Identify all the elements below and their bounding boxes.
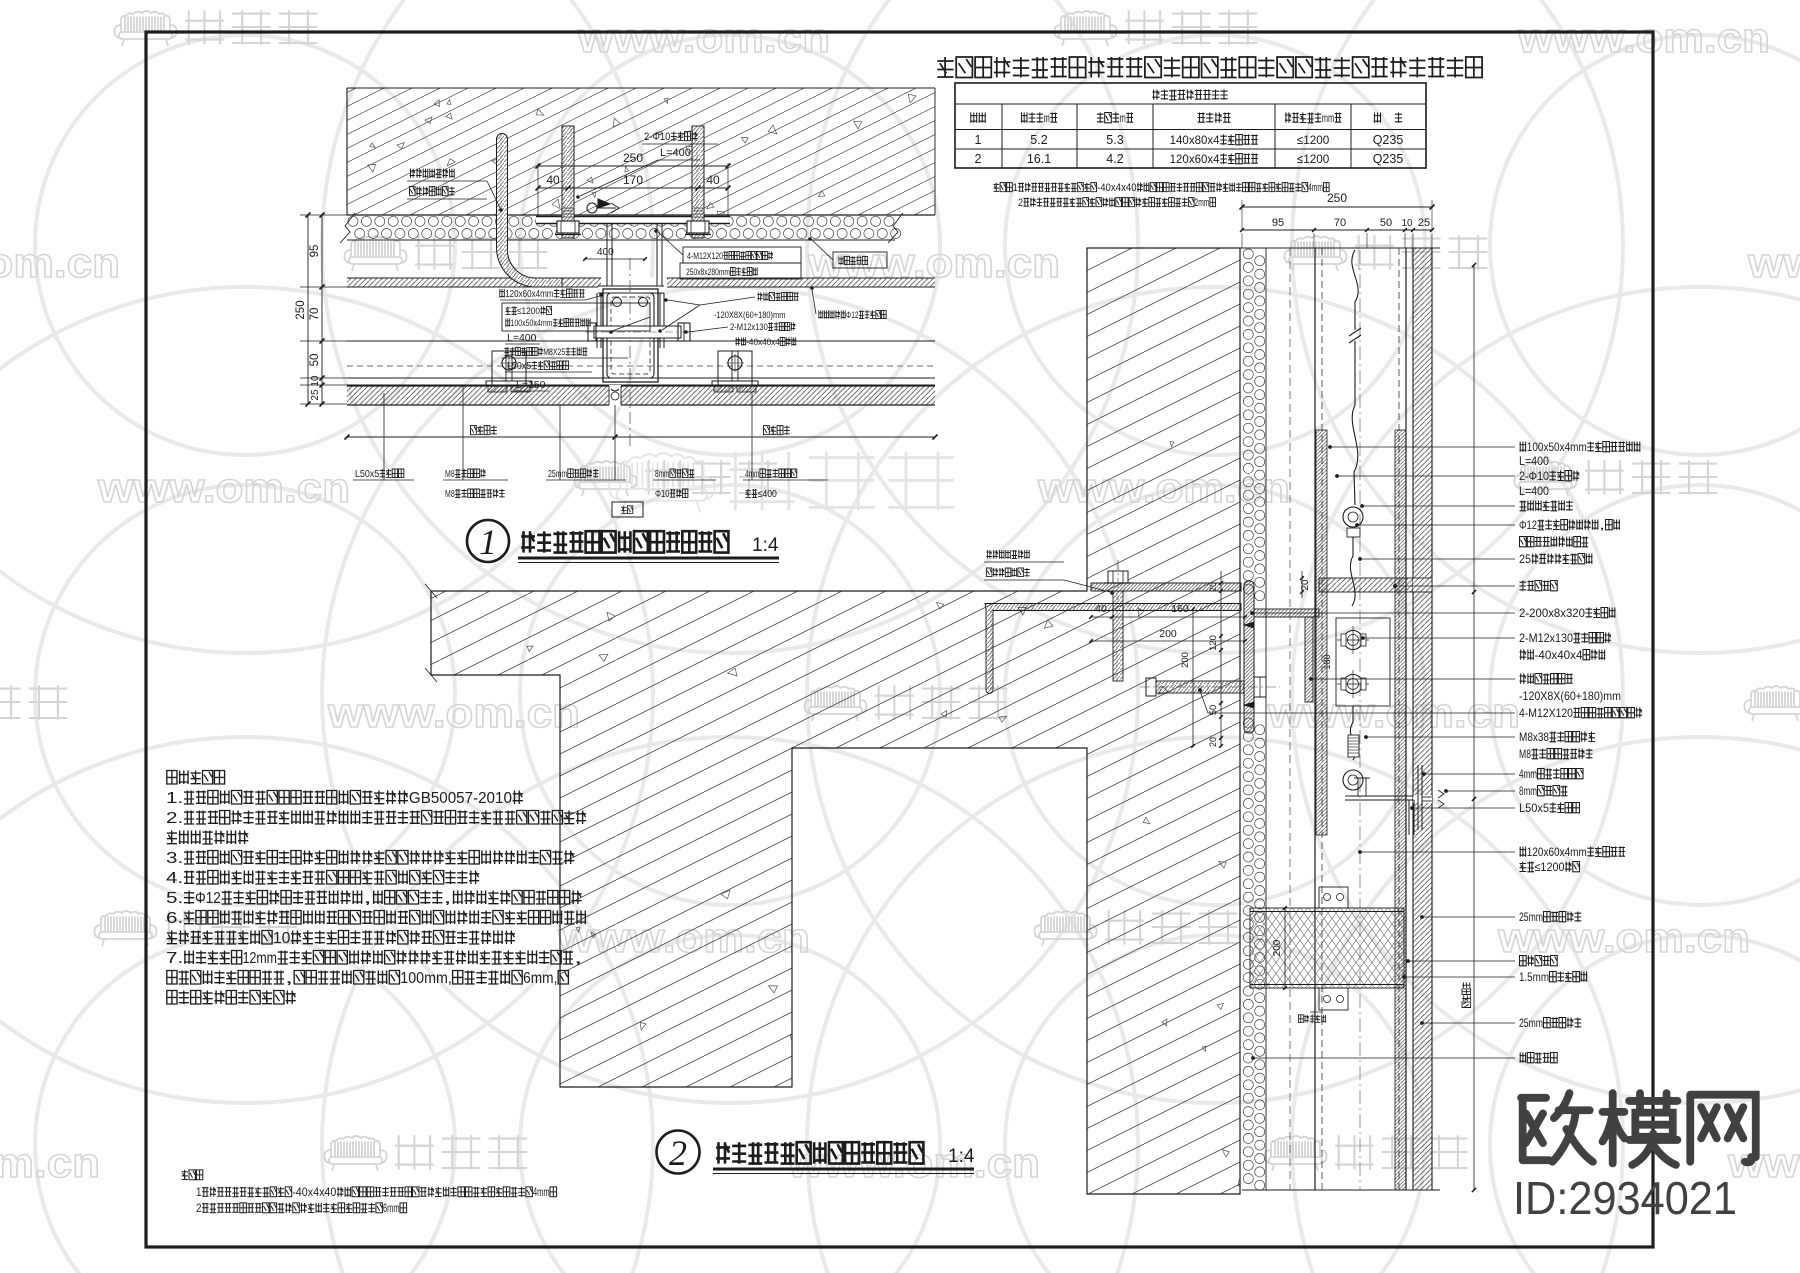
detail 1 label lightning ring phi12: [818, 310, 886, 321]
svg-text:-40x4x40: -40x4x40: [292, 1187, 336, 1199]
watermark tiled logos: [1054, 11, 1116, 46]
svg-text:120x60x4: 120x60x4: [1170, 152, 1220, 166]
detail 2 label wire terminal: [1520, 501, 1573, 511]
svg-text:4.: 4.: [166, 870, 183, 887]
detail 1 stone joint 8mm with foam rod: [609, 385, 621, 406]
detail 2 rod connection box with bolts: [1336, 618, 1390, 706]
svg-text:250: 250: [295, 300, 307, 319]
detail 2 label shim 40x40x4: [1520, 648, 1606, 662]
svg-text:,: ,: [443, 890, 452, 907]
detail 1 label civil insulation boxed: [833, 252, 887, 268]
svg-text:25mm: 25mm: [1519, 1016, 1543, 1030]
svg-text:L=400: L=400: [660, 147, 691, 159]
detail 2 tube inner dashed lines: [1321, 248, 1323, 1190]
svg-text:16.1: 16.1: [1027, 152, 1051, 166]
svg-text:www.om.cn: www.om.cn: [1517, 14, 1770, 61]
svg-text:100x50x4mm: 100x50x4mm: [511, 318, 553, 329]
detail 2 label 4-M12x120 anchor: [1519, 706, 1642, 720]
svg-text:20: 20: [1208, 582, 1218, 592]
detail 2 firestop rock wool band: [1250, 908, 1404, 988]
detail 1 section marker: [598, 199, 610, 208]
detail 1 label stone 25mm: [548, 469, 598, 480]
svg-text:4mm: 4mm: [533, 1187, 550, 1199]
detail 2 label L=400: [1519, 454, 1549, 468]
detail 2 firestop dimension 200: [1284, 908, 1286, 988]
detail 2 module dimension line vertical: [1473, 265, 1475, 1190]
svg-text:10: 10: [310, 375, 321, 387]
detail 1 label stainless hanger 4mm: [745, 469, 797, 480]
svg-text:-40x40x4: -40x40x4: [1535, 648, 1583, 662]
svg-text:2-M12x130: 2-M12x130: [1519, 631, 1573, 645]
svg-text:250x8x280mm: 250x8x280mm: [686, 267, 730, 278]
svg-text:12mm: 12mm: [243, 950, 277, 967]
svg-text:400: 400: [597, 247, 614, 258]
detail 2 label seven connector: [1520, 674, 1573, 684]
detail 1 tube top screws: [613, 298, 622, 307]
detail 2 bottom edge line: [1242, 1189, 1440, 1191]
detail 2 horizontal chemical anchor bolt: [1156, 681, 1244, 693]
svg-text:25: 25: [310, 389, 321, 401]
detail 2 slab top embed plate: [1091, 583, 1241, 591]
detail 1 hat channel gussets: [601, 278, 667, 288]
detail 2 firestop sheet label: [1298, 1015, 1326, 1023]
site watermark logo text: [1521, 1093, 1593, 1162]
svg-text:20: 20: [1208, 737, 1218, 747]
detail 2 label stone lower: [1519, 1016, 1581, 1030]
svg-text:L50x5: L50x5: [1519, 801, 1549, 815]
detail 1 transom lines: [347, 340, 935, 342]
detail 1 insulation layer (circles): [348, 216, 901, 238]
svg-text:2-200x8x320: 2-200x8x320: [1519, 606, 1585, 620]
svg-text:5.: 5.: [166, 890, 183, 907]
detail 1 stone clamp bracket left: [492, 351, 526, 386]
detail 2 label L=400 b: [1519, 484, 1549, 498]
detail 2 equipotential rod assembly: [1349, 250, 1361, 505]
svg-text:120: 120: [1208, 635, 1219, 651]
detail 2 wall embed plate 2-200x8x320: [1244, 581, 1254, 733]
svg-text:2-Φ10: 2-Φ10: [1519, 469, 1549, 483]
svg-text:250: 250: [623, 151, 643, 165]
drawing sheet border frame: [146, 32, 1653, 1247]
svg-text:200: 200: [1159, 628, 1177, 640]
svg-text:mm: mm: [1322, 111, 1335, 125]
detail 2 label M12x130 bolts: [1519, 631, 1611, 645]
svg-text:1.5mm: 1.5mm: [1519, 970, 1549, 984]
svg-text:-120X8X(60+180)mm: -120X8X(60+180)mm: [714, 310, 785, 321]
detail 2 vertical anchor bolt into slab: [1113, 591, 1123, 681]
svg-text:1:4: 1:4: [948, 1146, 975, 1167]
detail 1 sealant/steel strip: [347, 278, 935, 287]
svg-text:1:4: 1:4: [752, 535, 779, 556]
detail 2 label M8x38 bolt set: [1519, 730, 1595, 744]
svg-text:1: 1: [479, 522, 497, 562]
svg-text:GB50057-2010: GB50057-2010: [409, 790, 512, 807]
detail 2 lightning strap on slab: [985, 604, 1241, 694]
svg-text:≤1200: ≤1200: [1297, 133, 1330, 147]
svg-text:M8x38: M8x38: [1519, 730, 1549, 744]
svg-text:1: 1: [1013, 182, 1018, 194]
svg-text:≤1200: ≤1200: [1297, 152, 1330, 166]
detail 1 label M8 bolts: [445, 469, 486, 480]
svg-text:4mm: 4mm: [1519, 767, 1537, 781]
svg-text:4-M12X120: 4-M12X120: [1519, 706, 1573, 720]
detail 2 wall insulation strip (circles): [1243, 249, 1264, 1190]
svg-text:www.om.cn: www.om.cn: [1747, 239, 1800, 286]
detail 2 label 8mm joint: [1519, 784, 1568, 798]
svg-text:2.: 2.: [166, 810, 183, 827]
lightning protection notes: [167, 771, 225, 785]
svg-text:,: ,: [285, 970, 294, 987]
detail 1 label 250x8x280 plate boxed: [680, 263, 801, 279]
svg-text:Q235: Q235: [1373, 152, 1404, 166]
detail 1 label 8mm sealant joint: [655, 469, 694, 480]
svg-text:180: 180: [1322, 654, 1332, 669]
svg-text:m: m: [1120, 111, 1126, 125]
svg-text:www.om.cn: www.om.cn: [97, 464, 350, 511]
detail 2 label mullion tube 120x60: [1520, 845, 1626, 859]
svg-text:5.2: 5.2: [1030, 133, 1047, 147]
svg-text:2: 2: [1018, 197, 1023, 209]
svg-text:100mm,: 100mm,: [400, 970, 452, 987]
detail 2 insert tube core (hatched strips): [1316, 430, 1327, 835]
svg-text:250: 250: [1327, 191, 1347, 205]
svg-text:8mm: 8mm: [655, 469, 670, 480]
svg-text:2-M12x130: 2-M12x130: [730, 322, 768, 333]
detail 2 stone joint sealant 20mm at slab level: [1413, 578, 1432, 592]
svg-text:95: 95: [1272, 217, 1284, 229]
svg-text:2: 2: [975, 152, 982, 166]
svg-text:6mm,: 6mm,: [523, 970, 557, 987]
svg-text:50: 50: [1208, 705, 1219, 716]
detail 2 label fire sealant: [1520, 956, 1558, 966]
svg-text:www.om.cn: www.om.cn: [0, 1139, 100, 1186]
detail 2 firestop support bracket top: [1319, 887, 1348, 908]
detail 2 label hanger 4mm: [1519, 767, 1583, 781]
detail 1 stone clamp bracket right: [718, 351, 752, 386]
detail 1 label main lightning conductor: [410, 169, 455, 178]
detail 1 label shim 40x40x4: [735, 337, 796, 348]
svg-text:2-Φ10: 2-Φ10: [644, 131, 670, 143]
detail 1 angle cleats: [596, 293, 598, 348]
svg-text:ID:2934021: ID:2934021: [1513, 1172, 1737, 1224]
svg-text:6mm: 6mm: [383, 1203, 400, 1215]
svg-text:100x50x4mm: 100x50x4mm: [1527, 440, 1587, 454]
detail 1 anchor bolt left 2-phi10: [562, 126, 574, 238]
detail 2 tube centerline: [1359, 250, 1361, 1190]
detail 2 label weather sealant: [1520, 581, 1558, 591]
svg-text:Φ12: Φ12: [1519, 518, 1537, 532]
svg-text:4.2: 4.2: [1106, 152, 1123, 166]
installation notes: [182, 1170, 203, 1180]
detail 1 label 2-phi10 rebar L=400: [644, 131, 697, 143]
detail 2 seven-shape connector bracket: [1254, 609, 1319, 617]
detail 2 steel mullion tube faces: [1314, 248, 1316, 1190]
svg-text:M8: M8: [1519, 747, 1531, 761]
svg-text:40: 40: [706, 173, 720, 187]
detail 1 label -120x8 plate: [714, 310, 785, 321]
svg-text:95: 95: [309, 245, 321, 258]
svg-text:www.om.cn: www.om.cn: [577, 14, 830, 61]
detail 2 label core tube 100x50: [1520, 440, 1641, 454]
svg-text:8mm: 8mm: [1519, 784, 1537, 798]
detail 2 title circle: [657, 1131, 700, 1174]
svg-text:3.: 3.: [166, 850, 183, 867]
detail 2 label stone upper: [1519, 910, 1581, 924]
svg-text:70: 70: [309, 308, 321, 321]
svg-text:1.: 1.: [166, 790, 183, 807]
svg-text:5.3: 5.3: [1106, 133, 1123, 147]
detail 1 dimension 40/170/40: [538, 187, 728, 189]
svg-text:2: 2: [669, 1133, 687, 1173]
svg-text:200: 200: [1272, 939, 1283, 956]
svg-text:www.om.cn: www.om.cn: [0, 239, 120, 286]
svg-text:Φ10: Φ10: [655, 489, 670, 500]
svg-text:50: 50: [1380, 217, 1392, 229]
detail 1 outdoor box label: [612, 502, 643, 517]
detail 2 slab edge break marks: [425, 584, 437, 598]
svg-text:L=400: L=400: [507, 332, 537, 344]
svg-text:≤1200: ≤1200: [517, 306, 540, 317]
detail 1 left label stack: [499, 289, 584, 300]
svg-text:M8: M8: [445, 469, 455, 480]
svg-text:120x60x4mm: 120x60x4mm: [505, 289, 553, 300]
detail 1 module dimension line: [347, 436, 935, 438]
detail 2 label L50x5 angle: [1519, 801, 1580, 815]
detail 2 label 1.5mm sheet: [1519, 970, 1587, 984]
detail 2 label -120x8: [1519, 689, 1621, 703]
detail 1 embedded steel plate 250x8x280: [536, 216, 730, 224]
svg-text:-40x4x40: -40x4x40: [1097, 182, 1137, 194]
svg-text:www.om.cn: www.om.cn: [1727, 1139, 1800, 1186]
general note heading: [937, 57, 1482, 78]
detail 2 weld mark bottom: [1244, 702, 1254, 708]
detail 1 title text: [521, 531, 728, 552]
watermark big logo behind title 1: [609, 453, 715, 512]
detail 2 anchor dimensions: [1091, 616, 1245, 618]
svg-text:140x80x4: 140x80x4: [1170, 133, 1220, 147]
svg-text:-120X8X(60+180)mm: -120X8X(60+180)mm: [1519, 689, 1621, 703]
svg-text:40: 40: [546, 173, 560, 187]
detail 2 label ring weld: [1520, 537, 1589, 547]
svg-text:≤400: ≤400: [758, 489, 778, 500]
detail 2 rod lower turnbuckle and eye: [1350, 706, 1355, 760]
svg-text:M8: M8: [445, 489, 455, 500]
detail 1 top dimension 250: [538, 165, 728, 167]
detail 2 title text: [716, 1142, 923, 1163]
detail 2 weld mark top: [1244, 622, 1254, 628]
svg-text:1: 1: [196, 1187, 202, 1199]
detail 1 bottom leader lines: [383, 393, 385, 480]
svg-text:10: 10: [1401, 218, 1413, 229]
svg-text:≤1200: ≤1200: [1535, 860, 1565, 874]
detail 1 label seven connector: [757, 292, 798, 300]
detail 2 stone hanger assembly at joint: [1413, 795, 1432, 803]
table footnotes: [994, 182, 1330, 194]
svg-text:,: ,: [363, 890, 372, 907]
svg-text:Q235: Q235: [1373, 133, 1404, 147]
svg-text:Φ12: Φ12: [195, 890, 221, 907]
detail 2 label copper cable 25sq: [1519, 552, 1593, 566]
table column headers: [970, 113, 986, 123]
svg-text:2mm: 2mm: [1195, 197, 1210, 209]
detail 2 label M8 nut washer: [1519, 747, 1593, 761]
detail 1 label 4-M12x120 anchor boxed: [683, 247, 801, 263]
detail 2 label embed plate 200x8x320: [1519, 606, 1616, 620]
detail 2 hidden line at anchor plane: [1289, 248, 1291, 1190]
svg-text:40: 40: [1095, 603, 1107, 615]
svg-text:,: ,: [1599, 518, 1605, 532]
svg-text:4-M12X120: 4-M12X120: [687, 251, 723, 262]
svg-text:160: 160: [1171, 603, 1189, 615]
svg-text:m: m: [1044, 111, 1050, 125]
svg-text:2: 2: [196, 1203, 202, 1215]
svg-text:,: ,: [574, 950, 583, 967]
svg-text:70: 70: [1334, 217, 1346, 229]
svg-text:120x60x4mm: 120x60x4mm: [1527, 845, 1587, 859]
detail 2 strap label: [986, 550, 1029, 559]
detail 1 title circle: [467, 520, 509, 562]
svg-text:L=400: L=400: [1519, 454, 1549, 468]
svg-text:4mm: 4mm: [745, 469, 760, 480]
detail 1 left dimension chain 250/95/70/50/10/25: [307, 215, 309, 404]
svg-text:25: 25: [1519, 552, 1531, 566]
svg-text:-40x40x4: -40x40x4: [746, 337, 780, 348]
svg-text:1: 1: [975, 133, 982, 147]
svg-text:L=400: L=400: [1519, 484, 1549, 498]
detail 2 top dimension chain 250/95/70/50/10/25: [1242, 206, 1432, 208]
mullion selection table: [955, 83, 1426, 168]
detail 2 top edge line: [1087, 247, 1440, 249]
svg-text:50: 50: [309, 354, 321, 367]
detail 1 label L50x5 angle: [355, 469, 404, 480]
detail 1 steel mullion tube 120x60 section: [598, 286, 664, 293]
detail 1 label 2-M12x130 bolt: [730, 322, 795, 333]
svg-text:25mm: 25mm: [1519, 910, 1543, 924]
detail 1 lightning strap J-bar: [496, 134, 562, 288]
svg-text:4mm: 4mm: [1308, 182, 1323, 194]
svg-text:7.: 7.: [166, 950, 183, 967]
detail 2 label phi12 equipotential ring: [1519, 518, 1620, 532]
svg-text:6.: 6.: [166, 910, 183, 927]
detail 2 label spacing 1200: [1520, 860, 1580, 874]
svg-text:25mm: 25mm: [548, 469, 567, 480]
svg-text:www.om.cn: www.om.cn: [327, 689, 580, 736]
detail 2 label 2-phi10 rebar: [1519, 469, 1580, 483]
detail 1 insulation break mark: [888, 213, 903, 243]
detail 1 connection bolt M12x130: [594, 326, 681, 338]
svg-text:M8X25: M8X25: [543, 347, 565, 358]
svg-text:L50x5: L50x5: [355, 469, 380, 480]
detail 2 firestop support bracket bottom: [1319, 988, 1348, 1010]
detail 2 label civil insulation: [1520, 1053, 1558, 1063]
svg-text:200: 200: [1180, 652, 1191, 668]
svg-text:Φ12: Φ12: [846, 310, 859, 321]
svg-text:10: 10: [273, 930, 291, 947]
svg-text:25: 25: [1418, 217, 1430, 229]
detail 1 tube centerline: [629, 258, 631, 448]
